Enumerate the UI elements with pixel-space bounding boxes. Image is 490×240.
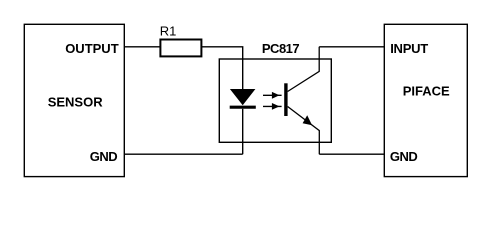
- svg-text:GND: GND: [390, 149, 418, 164]
- svg-text:PC817: PC817: [262, 41, 300, 56]
- light arrow 1: [263, 92, 282, 99]
- wire emitter to PIFACE GND: [319, 153, 384, 155]
- svg-text:SENSOR: SENSOR: [48, 95, 104, 110]
- phototransistor collector: [288, 47, 320, 92]
- svg-text:PIFACE: PIFACE: [403, 84, 450, 99]
- LED D1 cathode bar: [230, 106, 256, 109]
- phototransistor Q1 base bar: [284, 83, 287, 116]
- svg-text:INPUT: INPUT: [390, 41, 428, 56]
- svg-text:OUTPUT: OUTPUT: [65, 41, 119, 56]
- piface box: [384, 24, 467, 176]
- resistor R1: [160, 40, 201, 57]
- emitter arrowhead: [303, 115, 313, 125]
- phototransistor emitter: [288, 107, 320, 155]
- wire R1 to LED anode: [201, 47, 242, 90]
- svg-text:R1: R1: [160, 24, 177, 39]
- svg-text:GND: GND: [90, 149, 118, 164]
- wire LED cathode to GND rail: [242, 109, 244, 154]
- LED D1 anode triangle: [230, 89, 256, 105]
- wire collector to PIFACE INPUT: [319, 46, 384, 48]
- wire sensor GND rail: [124, 153, 242, 155]
- wire sensor OUTPUT to R1: [124, 46, 160, 48]
- light arrow 2: [263, 103, 282, 110]
- optocoupler U1 PC817 box: [219, 59, 331, 142]
- sensor box: [24, 24, 124, 176]
